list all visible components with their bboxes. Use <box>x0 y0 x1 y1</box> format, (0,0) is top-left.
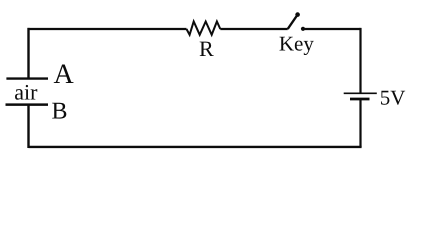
wire resistor to key <box>220 28 287 30</box>
wire bottom <box>29 146 362 148</box>
svg-text:R: R <box>199 36 214 61</box>
wire right side upper (corner down to battery) <box>359 28 361 93</box>
capacitor plate A (top) <box>6 77 48 79</box>
battery long plate (+) <box>344 92 377 94</box>
resistor R <box>187 22 221 35</box>
wire left side lower (corner up to capacitor plate B) <box>27 105 29 149</box>
switch (key) lever <box>288 16 297 30</box>
svg-text:A: A <box>54 59 75 90</box>
svg-text:Key: Key <box>279 32 314 56</box>
wire key to top-right corner <box>303 28 361 30</box>
switch lever tip dot <box>295 12 300 17</box>
wire top-left horizontal segment <box>28 28 187 30</box>
svg-text:5V: 5V <box>380 86 406 110</box>
svg-text:B: B <box>52 98 68 124</box>
switch contact dot <box>301 27 305 31</box>
wire left side upper (top corner down to plate A) <box>27 28 29 79</box>
svg-text:air: air <box>14 79 38 104</box>
wire right side lower (battery down to corner) <box>359 99 361 147</box>
battery short plate (-) <box>350 98 370 101</box>
capacitor plate B (bottom) <box>6 103 49 106</box>
